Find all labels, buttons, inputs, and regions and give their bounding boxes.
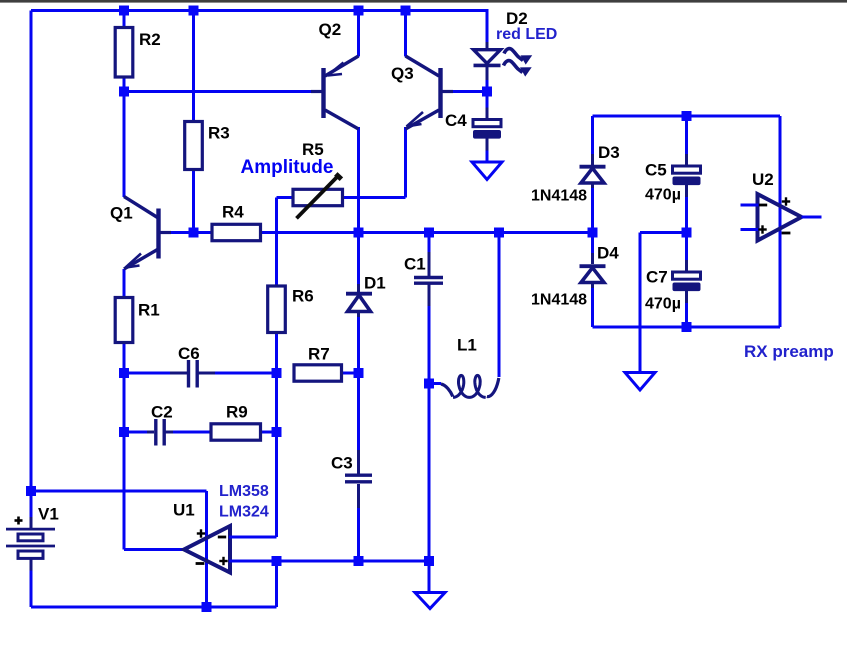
wire Q3 collector vertical: [404, 11, 407, 57]
svg-text:Amplitude: Amplitude: [241, 157, 334, 178]
svg-text:R4: R4: [222, 203, 244, 222]
wire U2 supply column: [779, 116, 782, 327]
wire Q1 collector vertical: [123, 92, 126, 198]
potentiometer R5: [293, 189, 343, 205]
node R2 bottom: [119, 87, 129, 97]
capacitor C5: [685, 154, 688, 166]
top border: [0, 0, 847, 3]
node top rail R2: [119, 6, 129, 16]
node R7 right: [354, 368, 364, 378]
wire Q2 emitter vertical: [357, 11, 360, 57]
wire R1 to feedback column: [123, 342, 126, 550]
node top rail Q2: [354, 6, 364, 16]
svg-text:Q2: Q2: [319, 20, 342, 39]
svg-text:R9: R9: [226, 403, 248, 422]
wire top positive rail: [31, 9, 489, 12]
svg-text:C4: C4: [445, 111, 467, 130]
op-amp U1: [184, 526, 230, 573]
wire Q1 base to R4: [160, 231, 212, 234]
wire C4 to ground: [486, 146, 489, 162]
wire ground col up: [275, 561, 278, 607]
wire R2 top lead: [123, 11, 126, 29]
wire main row: [260, 231, 593, 234]
wire RX right rail: [779, 116, 782, 327]
diode D1: [357, 284, 360, 292]
wire U1 in- horizontal: [229, 536, 277, 539]
node main L1: [494, 228, 504, 238]
wire Q1 emitter to R1: [123, 269, 126, 298]
svg-text:U1: U1: [173, 501, 195, 520]
wire R7 right lead: [341, 372, 359, 375]
node plus row C3: [354, 556, 364, 566]
wire R5 to R6 vertical: [275, 198, 278, 288]
wire C3 column top: [357, 373, 360, 450]
node battery top: [26, 486, 36, 496]
svg-text:D1: D1: [364, 274, 386, 293]
wire C7 top lead: [685, 233, 688, 261]
wire U1 output: [124, 548, 185, 551]
node R9 right: [272, 427, 282, 437]
resistor R4: [212, 224, 261, 240]
node plus row C1: [424, 556, 434, 566]
wire R6 bottom lead: [275, 332, 278, 373]
node top rail Q3: [401, 6, 411, 16]
svg-text:C3: C3: [331, 454, 353, 473]
resistor R6: [268, 286, 286, 333]
wire D4 bottom lead: [591, 288, 594, 327]
wire C6 row left: [124, 372, 170, 375]
ground bottom center: [415, 593, 445, 609]
U1 input plus: [219, 560, 227, 562]
wire RX top rail: [593, 115, 781, 118]
LED light arrows: [504, 49, 523, 61]
resistor R9: [211, 424, 261, 440]
resistor R7: [294, 365, 342, 381]
wire Q2 base row: [124, 90, 322, 93]
inductor L1: [429, 382, 441, 385]
wire R3 bottom lead: [192, 169, 195, 233]
wire D4 top lead: [591, 233, 594, 254]
transistor Q3: [438, 68, 442, 118]
wire center ground lead: [428, 561, 431, 593]
U2 input minus: [759, 204, 767, 207]
U2 supply minus: [782, 232, 791, 235]
capacitor C3: [357, 450, 360, 474]
svg-text:red LED: red LED: [496, 26, 557, 43]
svg-text:R3: R3: [208, 124, 230, 143]
svg-text:LM324: LM324: [219, 503, 269, 520]
wire C6 row right: [215, 372, 277, 375]
wire D3 bottom lead: [591, 188, 594, 233]
wire RX bottom rail: [593, 326, 781, 329]
svg-text:R6: R6: [292, 287, 314, 306]
svg-text:V1: V1: [38, 505, 59, 524]
node main R3: [189, 228, 199, 238]
svg-text:R1: R1: [138, 301, 160, 320]
wire Q3 emitter vertical: [404, 127, 407, 198]
ground below C4: [472, 162, 502, 180]
wire node to C4: [486, 92, 489, 111]
svg-text:Q3: Q3: [391, 64, 414, 83]
resistor R3: [185, 122, 203, 170]
capacitor C6: [170, 372, 187, 375]
svg-text:D4: D4: [597, 244, 619, 263]
node C2 left: [119, 427, 129, 437]
wire C2 row right: [173, 431, 212, 434]
capacitor C2: [147, 431, 154, 434]
wire D3 top lead: [591, 116, 594, 154]
wire C2 row left: [124, 431, 147, 434]
battery V1: [30, 517, 33, 529]
svg-text:1N4148: 1N4148: [531, 292, 587, 309]
wire R9 right lead: [259, 431, 277, 434]
battery plus sign: [15, 519, 23, 522]
wire Q3 base to LED node: [442, 90, 487, 93]
node L1 left: [424, 379, 434, 389]
node bottom rail supply: [202, 602, 212, 612]
op-amp U2: [758, 194, 802, 241]
ground RX preamp: [625, 373, 655, 391]
svg-text:C6: C6: [178, 344, 200, 363]
node LED cathode: [482, 87, 492, 97]
svg-text:U2: U2: [752, 170, 774, 189]
transistor Q2: [321, 68, 325, 118]
svg-text:C2: C2: [151, 403, 173, 422]
node RX bottom: [682, 322, 692, 332]
wire Q2 collector vertical: [357, 127, 360, 233]
U2 supply plus: [782, 200, 790, 202]
svg-text:470µ: 470µ: [645, 187, 681, 204]
wire D1 column bottom: [357, 317, 360, 373]
svg-text:LM358: LM358: [219, 483, 269, 500]
wire D1 column top: [357, 233, 360, 285]
U1 supply minus: [196, 562, 205, 565]
node C6 left: [119, 368, 129, 378]
resistor R1: [115, 298, 133, 343]
U1 input minus: [218, 536, 226, 539]
U2 input plus: [758, 228, 766, 230]
wire RX ground vertical: [639, 233, 642, 374]
U1 supply plus: [197, 532, 205, 534]
wire R2 bottom lead: [123, 77, 126, 92]
svg-text:L1: L1: [457, 336, 477, 355]
wire battery bottom lead: [30, 570, 33, 607]
svg-text:C7: C7: [646, 268, 668, 287]
svg-text:D3: D3: [598, 143, 620, 162]
node main C1: [424, 228, 434, 238]
svg-text:1N4148: 1N4148: [531, 188, 587, 205]
wire bottom rail: [31, 606, 277, 609]
capacitor C1: [428, 252, 431, 276]
svg-text:C5: C5: [645, 161, 667, 180]
wire C3 column bottom: [357, 508, 360, 561]
node RX mid: [682, 228, 692, 238]
wire U1 supply column: [205, 491, 208, 607]
svg-text:R2: R2: [139, 30, 161, 49]
wire C5 top lead: [685, 116, 688, 154]
wire C1 col to ground row: [428, 384, 431, 562]
capacitor C4: [486, 108, 489, 120]
wire L1 right vertical: [498, 233, 501, 378]
wire C1 bottom lead: [428, 306, 431, 384]
wire C1 top lead: [428, 233, 431, 253]
diode D3: [591, 154, 594, 165]
wire R6 col C6 to C2: [275, 373, 278, 432]
wire RX ground stub: [640, 231, 687, 234]
node plus row ground: [272, 556, 282, 566]
wire V+ row: [31, 490, 207, 493]
node main D3: [588, 228, 598, 238]
node top rail R3: [189, 6, 199, 16]
wire U1 plus row: [229, 560, 429, 563]
svg-text:R7: R7: [308, 345, 330, 364]
wire R5 row right: [341, 196, 406, 199]
wire D2 top lead: [486, 11, 489, 43]
transistor Q1: [156, 209, 160, 259]
svg-text:RX preamp: RX preamp: [744, 342, 834, 361]
node RX top: [682, 111, 692, 121]
wire battery top lead: [30, 491, 33, 518]
wire D2 cathode to node: [486, 78, 489, 92]
wire left rail: [30, 11, 33, 492]
LED D2: [486, 42, 489, 49]
svg-text:470µ: 470µ: [645, 296, 681, 313]
node main Q2: [354, 228, 364, 238]
wire R6 col C2 to U1 in-: [275, 432, 278, 537]
diode D4: [591, 253, 594, 264]
resistor R2: [115, 28, 133, 78]
wire R5 left stub: [277, 196, 295, 199]
wire C7 bottom lead: [685, 302, 688, 327]
svg-text:C1: C1: [404, 255, 426, 274]
capacitor C7: [685, 260, 688, 272]
node C6 right: [272, 368, 282, 378]
wire R3 top lead: [192, 11, 195, 123]
wire C5 bottom lead: [685, 196, 688, 233]
svg-text:Q1: Q1: [110, 204, 133, 223]
